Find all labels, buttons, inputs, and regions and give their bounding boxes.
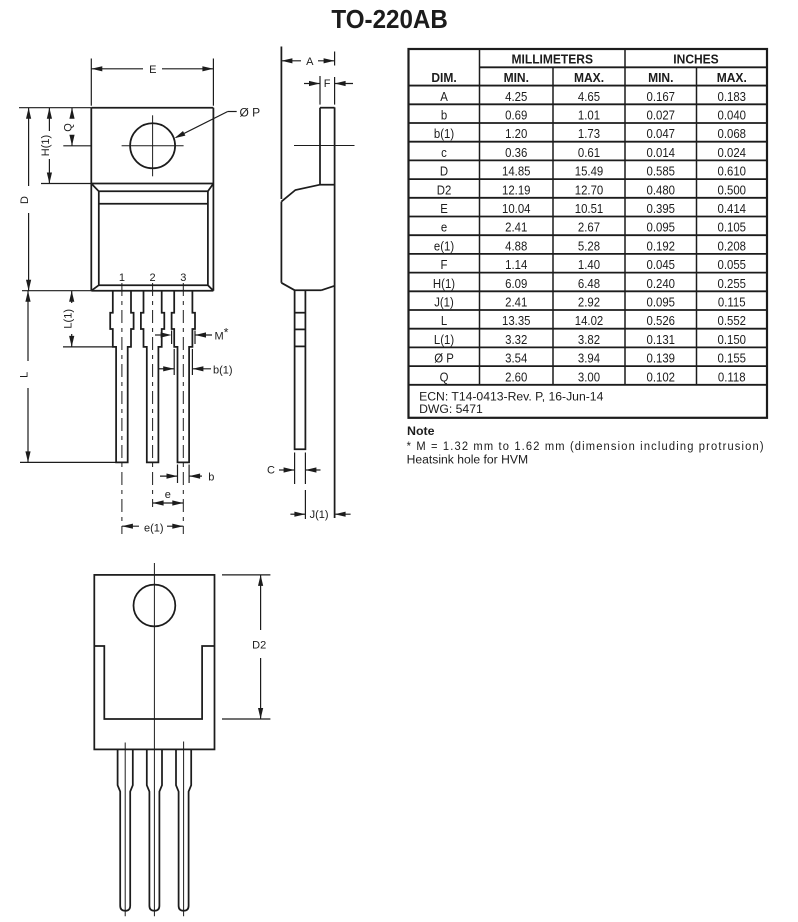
note line 2	[407, 453, 528, 467]
svg-text:2.60: 2.60	[505, 370, 527, 385]
svg-text:3.00: 3.00	[578, 370, 600, 385]
svg-text:6.09: 6.09	[505, 276, 527, 291]
side view: pin section ticks	[295, 313, 306, 347]
front view: hole circle	[130, 123, 175, 168]
rear view: hole circle	[134, 585, 176, 627]
dimension M extension lines	[172, 331, 195, 345]
dimension J1 label	[310, 509, 329, 521]
svg-text:0.068: 0.068	[718, 126, 747, 141]
side view: rear face line	[334, 52, 336, 519]
svg-text:H(1): H(1)	[433, 276, 455, 291]
side view: pin profile	[295, 290, 306, 449]
dimension P label	[239, 105, 260, 119]
svg-text:0.024: 0.024	[718, 145, 747, 160]
svg-text:D: D	[440, 164, 448, 179]
side view: hole center line	[294, 145, 355, 147]
svg-text:0.500: 0.500	[718, 183, 747, 198]
svg-text:6.48: 6.48	[578, 276, 600, 291]
svg-text:4.25: 4.25	[505, 89, 527, 104]
front view: metal tab outline	[91, 108, 213, 291]
front view: pin 1 lead	[110, 291, 133, 463]
svg-text:0.115: 0.115	[718, 295, 746, 310]
dimension Q label	[63, 123, 75, 132]
svg-text:c: c	[441, 145, 447, 160]
svg-text:0.61: 0.61	[578, 145, 600, 160]
table horizontal rules	[409, 67, 768, 385]
note line 1	[407, 439, 764, 453]
svg-text:Q: Q	[440, 370, 449, 385]
svg-text:0.095: 0.095	[647, 295, 676, 310]
table header text	[431, 52, 746, 85]
svg-text:b(1): b(1)	[434, 126, 454, 141]
svg-text:E: E	[440, 201, 448, 216]
svg-text:0.118: 0.118	[718, 370, 746, 385]
svg-text:13.35: 13.35	[502, 313, 531, 328]
dimension F extension lines	[319, 76, 321, 105]
dimension M arrows	[155, 332, 212, 337]
dimension F label	[324, 78, 331, 90]
table outer frame	[409, 49, 768, 418]
dimension L label	[19, 372, 31, 378]
svg-text:1.14: 1.14	[505, 257, 527, 272]
dimension b arrows	[160, 474, 202, 479]
svg-text:0.055: 0.055	[718, 257, 747, 272]
dimension D2 label	[252, 640, 266, 652]
extension line: tab top	[19, 107, 91, 109]
svg-text:MIN.: MIN.	[504, 71, 529, 85]
svg-text:0.027: 0.027	[647, 108, 676, 123]
dimension b1 label	[213, 364, 233, 376]
front view: body bottom edge	[91, 290, 213, 292]
svg-text:14.02: 14.02	[575, 313, 604, 328]
svg-text:0.183: 0.183	[718, 89, 747, 104]
svg-text:0.526: 0.526	[647, 313, 676, 328]
dimension D label	[19, 196, 31, 204]
table ECN row	[419, 389, 603, 416]
svg-text:0.150: 0.150	[718, 332, 747, 347]
rear view: pin 2	[147, 749, 162, 910]
dimension A line and arrows	[281, 58, 334, 63]
svg-text:INCHES: INCHES	[673, 52, 718, 66]
dimension L1 label	[62, 309, 74, 329]
dimension b1 extension lines	[174, 349, 192, 375]
dimension C label	[267, 465, 275, 477]
svg-text:14.85: 14.85	[502, 164, 531, 179]
svg-text:Note: Note	[407, 424, 435, 438]
dimension M label	[215, 326, 229, 343]
svg-text:0.131: 0.131	[647, 332, 676, 347]
svg-text:0.255: 0.255	[718, 276, 747, 291]
svg-text:DIM.: DIM.	[431, 71, 456, 85]
note heading	[407, 424, 435, 438]
svg-text:F: F	[441, 257, 448, 272]
front view: pin 3 centerline	[182, 283, 184, 534]
svg-text:0.102: 0.102	[647, 370, 676, 385]
svg-text:A: A	[440, 89, 448, 104]
rear view: body outline	[94, 575, 214, 750]
svg-text:0.040: 0.040	[718, 108, 747, 123]
extension line: hole center (Q)	[63, 145, 91, 147]
svg-text:5.28: 5.28	[578, 239, 600, 254]
dimension D line and arrows	[26, 108, 31, 291]
svg-text:3.94: 3.94	[578, 351, 600, 366]
table vertical rules	[480, 49, 697, 385]
dimension E extension lines	[91, 59, 213, 106]
svg-text:0.240: 0.240	[647, 276, 676, 291]
dimension J1 arrows	[290, 512, 350, 517]
svg-text:2.41: 2.41	[505, 295, 527, 310]
extension line: tab bottom (H1)	[41, 183, 91, 185]
front view: pin 1 centerline	[121, 283, 123, 534]
dimension e line and arrows	[153, 500, 184, 505]
svg-text:10.04: 10.04	[502, 201, 531, 216]
dimension C arrows	[279, 467, 321, 472]
dimension C extension lines	[295, 453, 306, 485]
svg-text:3.82: 3.82	[578, 332, 600, 347]
svg-text:MAX.: MAX.	[574, 71, 604, 85]
svg-text:0.610: 0.610	[718, 164, 747, 179]
svg-text:0.105: 0.105	[718, 220, 747, 235]
dimension E line and arrows	[91, 66, 213, 71]
dimension D2 extension lines	[222, 575, 270, 719]
svg-text:* M = 1.32 mm to 1.62 mm (dime: * M = 1.32 mm to 1.62 mm (dimension incl…	[407, 439, 764, 453]
rear view: pin 1 centerline	[124, 743, 126, 917]
svg-text:D2: D2	[437, 183, 452, 198]
svg-text:0.36: 0.36	[505, 145, 527, 160]
rear view: pin 1	[118, 749, 133, 910]
dimension H1 line and arrows	[47, 108, 52, 184]
dimension E label	[149, 64, 156, 76]
extension line: pin tip (L)	[20, 461, 116, 463]
drawing title TO-220AB	[0, 6, 789, 32]
dimension b extension lines	[178, 465, 190, 484]
svg-text:0.208: 0.208	[718, 239, 747, 254]
side view: left profile line	[280, 47, 282, 200]
svg-text:3.32: 3.32	[505, 332, 527, 347]
dimension L line and arrows	[25, 291, 30, 463]
dimension e1 line and arrows	[122, 524, 183, 529]
svg-text:Ø P: Ø P	[434, 351, 454, 366]
svg-text:2.41: 2.41	[505, 220, 527, 235]
rear view: pin 3 centerline	[183, 742, 185, 917]
svg-text:2.92: 2.92	[578, 295, 600, 310]
extension line: shoulder (L1)	[63, 346, 113, 348]
svg-text:15.49: 15.49	[575, 164, 604, 179]
svg-text:4.65: 4.65	[578, 89, 600, 104]
dimension e label	[165, 489, 171, 501]
rear view: body centerline	[153, 563, 155, 916]
svg-text:0.395: 0.395	[647, 201, 676, 216]
dimension J1 extension line	[304, 490, 306, 519]
svg-text:12.70: 12.70	[575, 183, 604, 198]
svg-text:e: e	[441, 220, 447, 235]
front view: pin 2 lead	[141, 291, 164, 463]
front view: pin 2 centerline	[152, 283, 154, 507]
svg-text:e(1): e(1)	[434, 239, 454, 254]
svg-text:0.480: 0.480	[647, 183, 676, 198]
svg-text:0.167: 0.167	[647, 89, 676, 104]
front view: pin number 3	[180, 272, 186, 284]
svg-text:1.01: 1.01	[578, 108, 600, 123]
svg-text:MILLIMETERS: MILLIMETERS	[512, 52, 593, 66]
svg-text:4.88: 4.88	[505, 239, 527, 254]
svg-text:MIN.: MIN.	[648, 71, 673, 85]
table body text	[433, 89, 746, 384]
svg-text:1.20: 1.20	[505, 126, 527, 141]
dimension b label	[208, 471, 214, 483]
svg-text:0.045: 0.045	[647, 257, 676, 272]
side view: body bottom	[281, 283, 334, 291]
dimension F arrows	[304, 81, 353, 86]
front view: pin number 2	[150, 272, 156, 284]
svg-text:3.54: 3.54	[505, 351, 527, 366]
dimension A label	[306, 56, 314, 68]
svg-text:10.51: 10.51	[575, 201, 604, 216]
side view: body left face	[280, 202, 282, 283]
svg-text:J(1): J(1)	[434, 295, 454, 310]
svg-text:0.414: 0.414	[718, 201, 747, 216]
side view: tab outline	[320, 108, 335, 185]
svg-text:0.552: 0.552	[718, 313, 747, 328]
front view: hole crosshair	[122, 115, 184, 176]
svg-text:0.155: 0.155	[718, 351, 747, 366]
side view: front chamfer	[281, 185, 320, 202]
dimension H1 label	[40, 135, 52, 156]
svg-text:L(1): L(1)	[434, 332, 454, 347]
dimension e1 label	[144, 522, 164, 534]
rear view: heatsink slug groove	[94, 646, 214, 719]
svg-text:0.69: 0.69	[505, 108, 527, 123]
svg-text:DWG: 5471: DWG: 5471	[419, 402, 483, 416]
svg-text:Heatsink hole for HVM: Heatsink hole for HVM	[407, 453, 528, 467]
dimension D2 line and arrows	[258, 575, 263, 719]
svg-text:0.095: 0.095	[647, 220, 676, 235]
dimension L1 line and arrows	[69, 291, 74, 347]
front view: pin number 1	[119, 272, 125, 284]
extension line: body bottom (D,L)	[22, 290, 91, 292]
svg-text:L: L	[441, 313, 447, 328]
svg-text:0.014: 0.014	[647, 145, 676, 160]
front view: molded body chamfers and inner face	[91, 184, 213, 291]
front view: pin 3 lead	[172, 291, 195, 463]
svg-text:0.047: 0.047	[647, 126, 676, 141]
svg-text:0.139: 0.139	[647, 351, 676, 366]
svg-text:2.67: 2.67	[578, 220, 600, 235]
dimension b1 arrows	[159, 366, 211, 371]
svg-text:1.73: 1.73	[578, 126, 600, 141]
svg-text:12.19: 12.19	[502, 183, 531, 198]
rear view: pin 3	[176, 749, 191, 910]
svg-text:0.192: 0.192	[647, 239, 676, 254]
dimension P leader arrow	[174, 112, 236, 139]
svg-text:MAX.: MAX.	[717, 71, 747, 85]
svg-text:0.585: 0.585	[647, 164, 676, 179]
svg-text:1.40: 1.40	[578, 257, 600, 272]
svg-text:b: b	[441, 108, 447, 123]
dimension Q line and arrows	[69, 108, 74, 146]
